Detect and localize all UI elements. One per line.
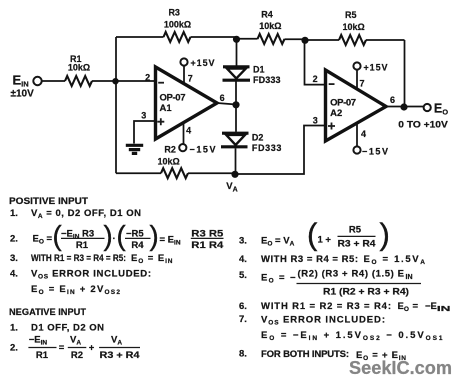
svg-text:VOS ERROR INCLUDED:: VOS ERROR INCLUDED: <box>261 315 385 327</box>
svg-text:3.: 3. <box>239 236 247 247</box>
svg-text:R3: R3 <box>168 8 180 18</box>
svg-text:R2: R2 <box>164 145 176 155</box>
svg-text:R1 (R2 + R3 + R4): R1 (R2 + R3 + R4) <box>323 287 409 298</box>
svg-text:EIN: EIN <box>13 73 29 89</box>
svg-text:EO = 1.5VA: EO = 1.5VA <box>364 254 426 266</box>
svg-text:EO = −EIN + 1.5VOS2 − 0.5VOS1: EO = −EIN + 1.5VOS2 − 0.5VOS1 <box>261 330 443 342</box>
svg-text:−EIN: −EIN <box>29 335 48 347</box>
svg-text:1.: 1. <box>10 323 18 334</box>
svg-text:R1 R4: R1 R4 <box>191 240 224 251</box>
svg-text:WITH R3 = R4 = R5:: WITH R3 = R4 = R5: <box>261 254 358 265</box>
svg-text:D1 OFF, D2 ON: D1 OFF, D2 ON <box>31 323 104 334</box>
svg-text:VOS ERROR INCLUDED:: VOS ERROR INCLUDED: <box>31 268 151 280</box>
svg-text:IN: IN <box>406 274 413 281</box>
svg-text:VA = 0, D2 OFF, D1 ON: VA = 0, D2 OFF, D1 ON <box>31 208 141 220</box>
svg-text:(: ( <box>307 217 318 252</box>
svg-text:5.: 5. <box>239 270 247 281</box>
svg-text:=: = <box>413 301 419 312</box>
svg-text:R4: R4 <box>261 10 273 20</box>
svg-text:10kΩ: 10kΩ <box>259 21 281 31</box>
svg-text:2.: 2. <box>10 234 18 245</box>
svg-text:): ) <box>104 220 113 251</box>
svg-text:VA: VA <box>111 335 122 347</box>
svg-text:2.: 2. <box>10 343 18 354</box>
svg-text:−EIN: −EIN <box>425 301 450 313</box>
svg-text:EO = VA: EO = VA <box>261 236 295 248</box>
svg-text:WITH R1 = R2 = R3 = R4:: WITH R1 = R2 = R3 = R4: <box>261 301 391 312</box>
svg-text:4.: 4. <box>10 268 18 279</box>
svg-text:+: + <box>89 343 95 354</box>
svg-text:10kΩ: 10kΩ <box>158 156 180 166</box>
svg-text:R5: R5 <box>349 224 362 235</box>
svg-text:EO = −: EO = − <box>261 273 296 285</box>
svg-text:VA: VA <box>70 335 81 347</box>
svg-text:FD333: FD333 <box>252 143 282 153</box>
svg-text:−R5: −R5 <box>126 228 144 239</box>
svg-text:D2: D2 <box>252 132 264 142</box>
svg-text:+15V: +15V <box>364 63 388 73</box>
svg-text:6.: 6. <box>239 301 247 312</box>
svg-text:OP-07: OP-07 <box>160 92 186 103</box>
svg-text:): ) <box>150 220 159 251</box>
svg-text:·: · <box>113 234 116 245</box>
svg-text:=: = <box>59 343 65 354</box>
svg-text:WITH R1 = R3 = R4 = R5:: WITH R1 = R3 = R4 = R5: <box>31 253 126 264</box>
svg-text:+15V: +15V <box>191 58 215 68</box>
svg-text:6: 6 <box>220 93 225 103</box>
svg-text:): ) <box>380 217 390 252</box>
svg-text:100kΩ: 100kΩ <box>164 19 191 29</box>
svg-text:NEGATIVE INPUT: NEGATIVE INPUT <box>9 307 86 318</box>
svg-text:VA: VA <box>226 181 237 193</box>
svg-text:EO: EO <box>398 301 409 313</box>
svg-text:−15V: −15V <box>190 145 216 155</box>
svg-text:EO = EIN: EO = EIN <box>131 253 173 265</box>
svg-text:4: 4 <box>186 126 191 136</box>
svg-text:R4: R4 <box>131 240 144 251</box>
svg-text:EO: EO <box>434 102 448 117</box>
svg-text:7.: 7. <box>239 314 247 325</box>
svg-text:10kΩ: 10kΩ <box>342 22 364 32</box>
svg-text:A1: A1 <box>160 103 173 114</box>
svg-text:3.: 3. <box>10 253 18 264</box>
svg-text:R2: R2 <box>71 350 83 361</box>
svg-text:4.: 4. <box>239 254 247 265</box>
svg-text:(: ( <box>117 220 126 251</box>
svg-text:FOR BOTH INPUTS:: FOR BOTH INPUTS: <box>261 349 349 360</box>
svg-text:D1: D1 <box>253 65 265 75</box>
svg-text:R3 + R4: R3 + R4 <box>338 239 377 250</box>
svg-text:10kΩ: 10kΩ <box>68 63 90 73</box>
svg-text:R5: R5 <box>345 10 357 20</box>
svg-text:EO =: EO = <box>33 234 53 246</box>
svg-text:8.: 8. <box>239 349 247 360</box>
svg-text:R1: R1 <box>76 240 89 251</box>
svg-text:6: 6 <box>390 95 395 105</box>
svg-text:7: 7 <box>188 73 193 83</box>
svg-text:2: 2 <box>313 74 318 84</box>
svg-text:(R2) (R3 + R4) (1.5) E: (R2) (R3 + R4) (1.5) E <box>298 269 405 280</box>
svg-text:3: 3 <box>141 110 146 120</box>
svg-text:−15V: −15V <box>362 147 388 157</box>
svg-text:A2: A2 <box>330 108 342 119</box>
svg-text:SeekIC.com: SeekIC.com <box>349 357 452 378</box>
svg-text:R1: R1 <box>36 350 49 361</box>
svg-text:R3 + R4: R3 + R4 <box>100 350 141 361</box>
svg-text:R3 R5: R3 R5 <box>191 228 224 239</box>
svg-text:POSITIVE INPUT: POSITIVE INPUT <box>9 196 88 207</box>
svg-text:±10V: ±10V <box>11 89 35 100</box>
svg-text:1.: 1. <box>10 208 18 219</box>
svg-text:4: 4 <box>361 129 366 139</box>
svg-text:7: 7 <box>359 78 364 88</box>
svg-text:FD333: FD333 <box>253 75 281 85</box>
svg-text:= EIN: = EIN <box>160 235 181 247</box>
svg-text:0 TO +10V: 0 TO +10V <box>398 120 448 130</box>
svg-text:3: 3 <box>313 115 318 125</box>
svg-text:2: 2 <box>145 72 150 82</box>
svg-text:1 +: 1 + <box>318 235 332 246</box>
svg-text:EO = EIN + 2VOS2: EO = EIN + 2VOS2 <box>31 284 120 296</box>
